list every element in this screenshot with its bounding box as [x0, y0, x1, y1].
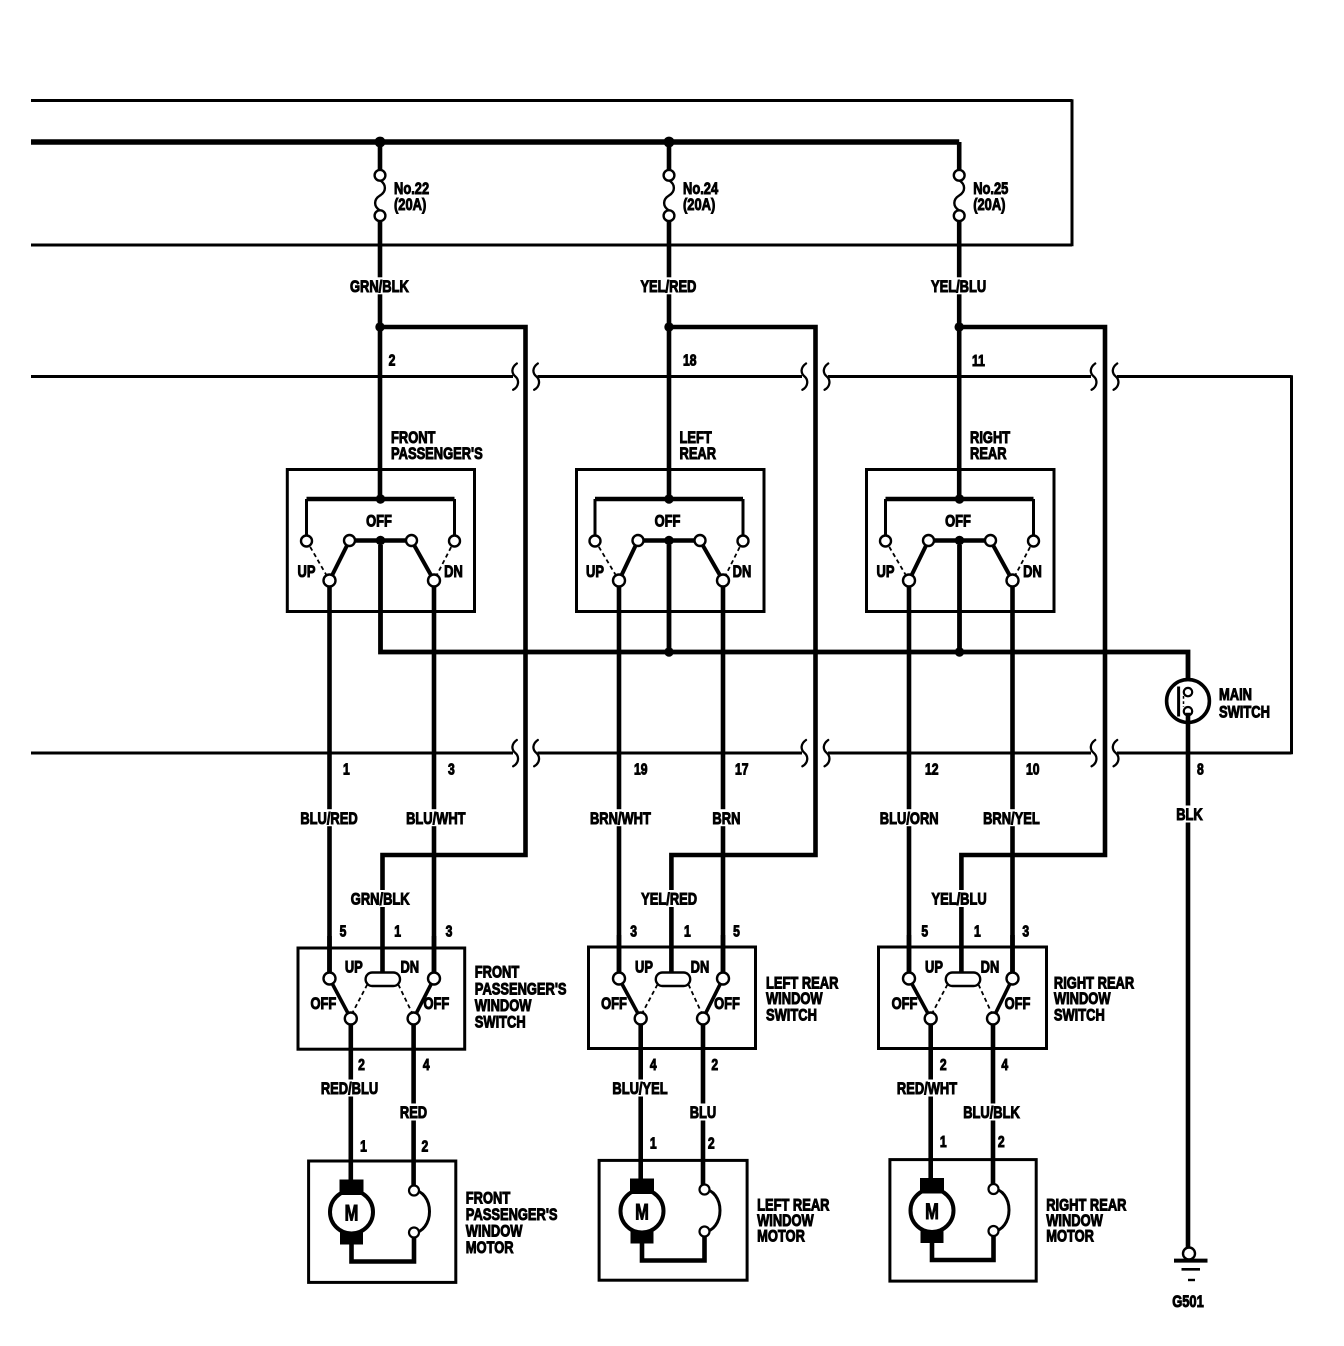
svg-text:UP: UP — [635, 958, 653, 977]
svg-text:BRN/YEL: BRN/YEL — [983, 809, 1040, 828]
wire BLU/RED: front passenger switch UP to window switch — [327, 587, 332, 976]
left rear window motor M — [599, 1160, 747, 1280]
label YEL/BLU — [929, 277, 989, 296]
svg-text:DN: DN — [444, 562, 463, 581]
label BLU — [688, 1104, 719, 1123]
svg-text:OFF: OFF — [714, 995, 740, 1014]
label YEL/RED — [638, 277, 698, 296]
front passenger window motor M — [309, 1161, 456, 1282]
svg-text:4: 4 — [423, 1056, 430, 1074]
svg-text:OFF: OFF — [892, 995, 918, 1014]
svg-text:1: 1 — [343, 761, 350, 779]
svg-text:3: 3 — [446, 923, 453, 941]
svg-text:BLU/BLK: BLU/BLK — [963, 1104, 1020, 1123]
right rear window switch contacts — [903, 935, 1019, 1025]
label GRN/BLK — [348, 277, 411, 296]
label BLU/BLK — [961, 1104, 1022, 1123]
front passenger window switch contacts — [324, 936, 441, 1025]
svg-text:OFF: OFF — [423, 995, 449, 1014]
wire YEL/RED: fuse No.24 to left rear switch — [664, 221, 673, 504]
svg-text:RED/BLU: RED/BLU — [321, 1080, 378, 1099]
label BLU/WHT — [404, 809, 468, 828]
wire BLU/YEL: window switch to motor pin 1 — [638, 1025, 643, 1184]
wire GRN/BLK: fuse No.22 to front passenger switch — [375, 221, 384, 504]
right rear door window switch (dash switch) — [867, 470, 1055, 612]
svg-text:1: 1 — [684, 923, 691, 941]
svg-text:OFF: OFF — [655, 512, 681, 531]
svg-text:18: 18 — [683, 352, 697, 370]
svg-text:BLK: BLK — [1176, 806, 1203, 825]
svg-text:2: 2 — [940, 1056, 947, 1074]
svg-text:UP: UP — [586, 562, 604, 581]
svg-text:GRN/BLK: GRN/BLK — [350, 277, 409, 296]
svg-text:4: 4 — [1001, 1056, 1008, 1074]
front passenger switch contacts — [301, 494, 460, 586]
svg-text:BLU/RED: BLU/RED — [300, 809, 357, 828]
left rear switch contacts — [590, 494, 749, 586]
left rear window switch contacts — [613, 935, 729, 1025]
svg-text:SWITCH: SWITCH — [1219, 703, 1270, 722]
svg-text:DN: DN — [400, 958, 419, 977]
svg-text:DN: DN — [1023, 562, 1042, 581]
svg-text:M: M — [345, 1201, 359, 1226]
svg-text:OFF: OFF — [1005, 995, 1031, 1014]
right rear window switch — [879, 947, 1047, 1049]
svg-text:2: 2 — [708, 1135, 715, 1153]
wire: battery hot bus (thick) — [31, 137, 959, 148]
label BRN — [710, 809, 742, 828]
left rear window switch — [589, 947, 756, 1049]
svg-text:M: M — [635, 1200, 649, 1225]
svg-text:3: 3 — [630, 923, 637, 941]
svg-text:SWITCH: SWITCH — [1054, 1006, 1105, 1025]
right rear window motor M — [890, 1160, 1036, 1282]
svg-text:BRN/WHT: BRN/WHT — [590, 809, 652, 828]
svg-text:3: 3 — [448, 761, 455, 779]
svg-text:17: 17 — [735, 761, 749, 779]
svg-text:2: 2 — [422, 1138, 429, 1156]
wire RED/BLU: window switch to motor pin 1 — [348, 1025, 353, 1184]
svg-text:MOTOR: MOTOR — [757, 1227, 805, 1246]
svg-text:RED/WHT: RED/WHT — [897, 1080, 958, 1099]
wire YEL/BLU: fuse No.25 to right rear switch — [955, 221, 964, 504]
front passenger window switch — [298, 948, 465, 1049]
svg-text:2: 2 — [998, 1133, 1005, 1151]
svg-text:DN: DN — [691, 958, 710, 977]
svg-text:12: 12 — [925, 761, 939, 779]
svg-text:2: 2 — [389, 352, 396, 370]
svg-text:5: 5 — [340, 923, 347, 941]
wire: second feed line (thin) — [31, 244, 1072, 247]
svg-text:(20A): (20A) — [394, 196, 426, 215]
wire BLU/BLK: window switch to motor pin 2 — [991, 1025, 996, 1187]
wire BRN/WHT: left rear switch UP to window switch — [617, 587, 622, 976]
svg-text:1: 1 — [974, 923, 981, 941]
svg-text:1: 1 — [650, 1135, 657, 1153]
right rear switch contacts — [880, 494, 1039, 586]
wire: branch from node to front passenger window switch pin 1 — [380, 327, 526, 977]
svg-text:10: 10 — [1026, 761, 1040, 779]
svg-text:BRN: BRN — [712, 809, 740, 828]
svg-text:OFF: OFF — [945, 512, 971, 531]
fuse No.24 (20A) — [664, 142, 675, 221]
wire BLU/WHT: front passenger switch DN to window switch — [432, 587, 437, 976]
label BLU/YEL — [610, 1080, 670, 1099]
svg-text:MAIN: MAIN — [1219, 685, 1252, 704]
svg-text:DN: DN — [733, 562, 752, 581]
svg-text:RED: RED — [400, 1104, 427, 1123]
svg-text:8: 8 — [1197, 761, 1204, 779]
svg-text:UP: UP — [345, 958, 363, 977]
svg-text:DN: DN — [981, 958, 1000, 977]
label GRN/BLK — [349, 890, 412, 909]
svg-text:REAR: REAR — [970, 445, 1007, 464]
svg-text:5: 5 — [921, 923, 928, 941]
svg-text:1: 1 — [360, 1138, 367, 1156]
svg-text:1: 1 — [940, 1133, 947, 1151]
connector line (lower, in-line connector) — [31, 740, 1292, 766]
svg-text:11: 11 — [972, 352, 985, 370]
svg-text:MOTOR: MOTOR — [1046, 1227, 1094, 1246]
svg-text:YEL/BLU: YEL/BLU — [931, 277, 986, 296]
wire: top feed line (thin) — [31, 99, 1072, 102]
label BLK — [1174, 806, 1205, 825]
wire: switch commons to main switch (node) — [381, 545, 1189, 690]
wire BLU/ORN: right rear switch UP to window switch — [907, 587, 912, 976]
label BLU/RED — [298, 809, 360, 828]
svg-text:5: 5 — [733, 923, 740, 941]
svg-text:G501: G501 — [1172, 1293, 1204, 1312]
wire: right-side vertical joining feed lines — [1071, 99, 1074, 246]
main switch (window lockout) — [1167, 680, 1210, 723]
svg-text:4: 4 — [650, 1056, 657, 1074]
svg-text:2: 2 — [711, 1056, 718, 1074]
svg-text:OFF: OFF — [366, 512, 392, 531]
svg-text:19: 19 — [634, 761, 648, 779]
svg-text:UP: UP — [925, 958, 943, 977]
svg-text:2: 2 — [358, 1056, 365, 1074]
svg-text:M: M — [925, 1200, 939, 1225]
svg-text:1: 1 — [394, 923, 401, 941]
fuse No.25 (20A) — [954, 142, 965, 221]
wire BRN: left rear switch DN to window switch — [721, 587, 726, 976]
label BRN/WHT — [588, 809, 654, 828]
wire: far right vertical (connector line return) — [1290, 375, 1293, 754]
label YEL/BLU — [929, 890, 989, 909]
svg-text:GRN/BLK: GRN/BLK — [351, 890, 410, 909]
label RED — [398, 1104, 429, 1123]
svg-text:REAR: REAR — [680, 445, 717, 464]
svg-text:MOTOR: MOTOR — [466, 1239, 514, 1258]
svg-text:YEL/RED: YEL/RED — [641, 890, 697, 909]
svg-text:BLU/WHT: BLU/WHT — [406, 809, 466, 828]
wire RED/WHT: window switch to motor pin 1 — [928, 1025, 933, 1184]
svg-text:OFF: OFF — [601, 995, 627, 1014]
svg-text:UP: UP — [877, 562, 895, 581]
label BRN/YEL — [981, 809, 1042, 828]
svg-text:(20A): (20A) — [973, 196, 1005, 215]
ground G501 — [1174, 1248, 1208, 1281]
wire RED: window switch to motor pin 2 — [411, 1025, 416, 1187]
svg-text:YEL/BLU: YEL/BLU — [931, 890, 986, 909]
wire BRN/YEL: right rear switch DN to window switch — [1010, 587, 1015, 976]
wire BLK: main switch to ground — [1186, 713, 1191, 1248]
fuse No.22 (20A) — [375, 142, 386, 221]
label YEL/RED — [639, 890, 699, 909]
label RED/WHT — [895, 1080, 960, 1099]
wire: branch from node to right rear window switch pin 1 — [959, 327, 1105, 977]
svg-text:PASSENGER'S: PASSENGER'S — [391, 445, 483, 464]
svg-text:SWITCH: SWITCH — [766, 1006, 817, 1025]
wire: branch from node to left rear window switch pin 1 — [669, 327, 816, 977]
svg-text:UP: UP — [298, 562, 316, 581]
svg-text:YEL/RED: YEL/RED — [640, 277, 696, 296]
label RED/BLU — [319, 1080, 381, 1099]
connector line (upper, in-line connector) — [31, 364, 1292, 390]
svg-text:OFF: OFF — [310, 995, 336, 1014]
svg-text:BLU/ORN: BLU/ORN — [880, 809, 939, 828]
svg-text:SWITCH: SWITCH — [475, 1013, 526, 1032]
svg-text:BLU/YEL: BLU/YEL — [612, 1080, 667, 1099]
wire BLU: window switch to motor pin 2 — [701, 1025, 706, 1187]
left rear door window switch (dash switch) — [577, 470, 765, 612]
front passenger door window switch (dash switch) — [287, 470, 474, 612]
svg-text:3: 3 — [1022, 923, 1029, 941]
svg-text:(20A): (20A) — [683, 196, 715, 215]
label BLU/ORN — [878, 809, 941, 828]
svg-text:BLU: BLU — [690, 1104, 717, 1123]
